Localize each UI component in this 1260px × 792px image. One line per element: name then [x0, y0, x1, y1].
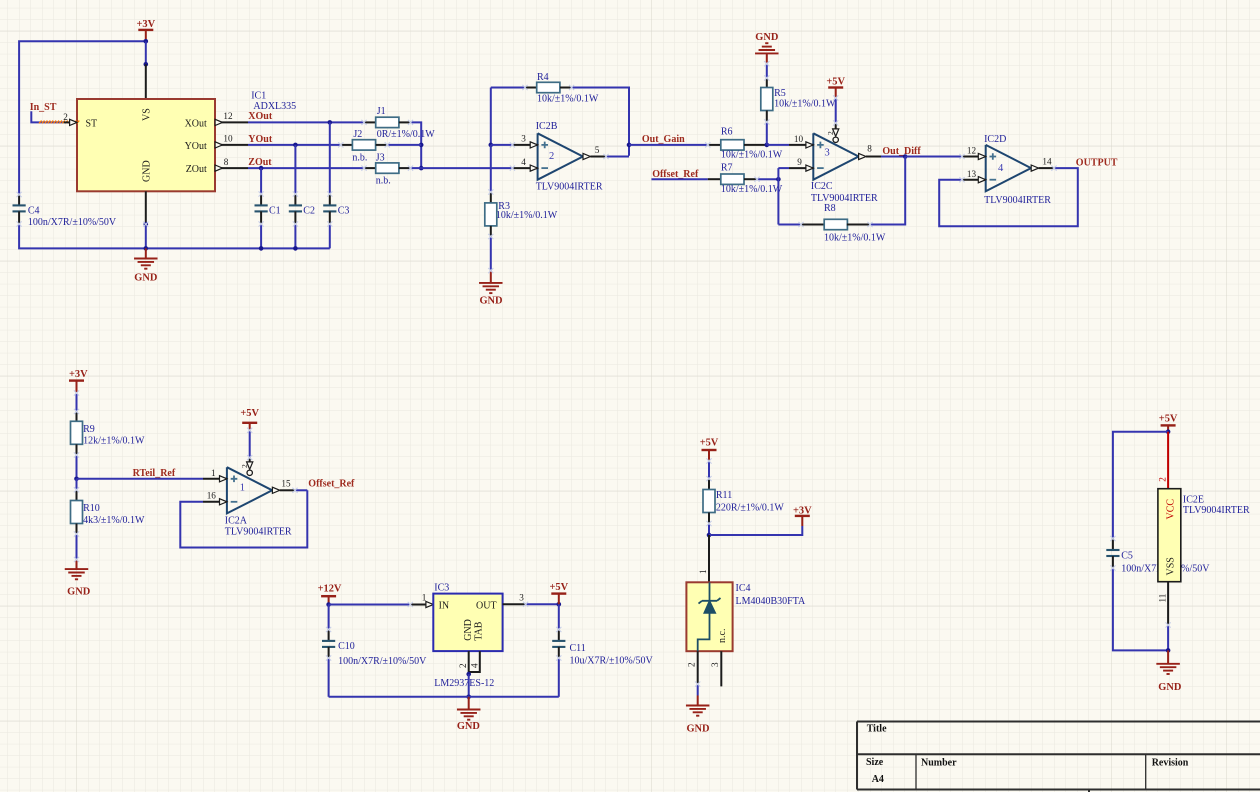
- pin 10: [789, 144, 813, 146]
- pin 12: [962, 156, 986, 158]
- svg-text:n.b.: n.b.: [352, 152, 367, 163]
- svg-text:10k/±1%/0.1W: 10k/±1%/0.1W: [721, 150, 783, 161]
- wire R3 drop: [490, 145, 492, 192]
- capacitor C11: [558, 604, 560, 629]
- resistor R10: [76, 490, 78, 501]
- svg-text:IC2D: IC2D: [984, 134, 1006, 145]
- svg-text:C1: C1: [269, 206, 281, 217]
- pin 2 GND: [468, 651, 470, 674]
- svg-text:In_ST: In_ST: [30, 102, 57, 113]
- wire: [411, 167, 422, 169]
- junction: [144, 62, 149, 67]
- svg-text:2: 2: [826, 131, 835, 135]
- junction: [328, 120, 333, 125]
- junction: [557, 602, 562, 607]
- wire branch +3V: [709, 526, 802, 535]
- junction: [293, 143, 298, 148]
- svg-text:R6: R6: [721, 127, 733, 138]
- svg-text:10k/±1%/0.1W: 10k/±1%/0.1W: [537, 94, 599, 105]
- svg-text:GND: GND: [686, 724, 709, 735]
- ground: [145, 248, 147, 258]
- svg-text:R10: R10: [83, 503, 100, 514]
- svg-text:IC1: IC1: [251, 91, 266, 102]
- IC IC4 body: [686, 582, 732, 651]
- svg-text:IC2E: IC2E: [1183, 495, 1204, 506]
- svg-text:Number: Number: [921, 758, 957, 769]
- ground: [697, 696, 699, 706]
- wire: [526, 603, 559, 605]
- title block frame: [857, 722, 1260, 790]
- svg-text:C10: C10: [338, 641, 355, 652]
- ground: [1167, 650, 1169, 663]
- zener diode symbol: [709, 582, 711, 601]
- wire ZOut to pin4: [421, 167, 512, 169]
- svg-text:11: 11: [1158, 593, 1168, 602]
- svg-text:0R/±1%/0.1W: 0R/±1%/0.1W: [377, 129, 436, 140]
- svg-text:VCC: VCC: [1166, 499, 1177, 520]
- svg-text:16: 16: [207, 491, 217, 501]
- ground: [76, 560, 78, 570]
- svg-text:8: 8: [224, 157, 229, 167]
- svg-text:R4: R4: [537, 72, 549, 83]
- svg-text:2: 2: [458, 663, 468, 668]
- svg-text:1: 1: [240, 482, 245, 493]
- svg-text:3: 3: [519, 592, 524, 602]
- pin 12 XOut: [215, 121, 248, 123]
- pin 9: [789, 167, 813, 169]
- svg-text:Revision: Revision: [1152, 758, 1189, 769]
- svg-text:5: 5: [595, 145, 600, 155]
- wire: [411, 122, 422, 168]
- svg-text:C2: C2: [303, 206, 315, 217]
- wire: [387, 144, 421, 146]
- svg-text:YOut: YOut: [185, 141, 207, 152]
- resistor J2: [341, 144, 353, 146]
- svg-text:GND: GND: [67, 587, 90, 598]
- svg-text:TLV9004IRTER: TLV9004IRTER: [536, 182, 603, 193]
- svg-text:TLV9004IRTER: TLV9004IRTER: [225, 526, 292, 537]
- svg-text:2: 2: [63, 112, 68, 122]
- wire YOut row: [248, 144, 341, 146]
- wire: [491, 144, 513, 146]
- svg-text:ZOut: ZOut: [186, 164, 207, 175]
- capacitor C10: [328, 605, 330, 630]
- svg-text:3: 3: [710, 662, 720, 667]
- svg-text:LM2937ES-12: LM2937ES-12: [434, 678, 494, 689]
- wire: [329, 604, 411, 606]
- svg-text:2: 2: [687, 662, 697, 667]
- op-amp IC2C: [813, 133, 858, 179]
- svg-text:Out_Diff: Out_Diff: [882, 146, 921, 157]
- capacitor C3: [329, 122, 331, 194]
- wire C5 loop: [1113, 432, 1168, 539]
- svg-text:3: 3: [825, 148, 830, 159]
- wire: [31, 111, 63, 122]
- pin 4 TAB: [469, 651, 480, 672]
- svg-text:Offset_Ref: Offset_Ref: [308, 479, 355, 490]
- pin VS: [145, 64, 147, 99]
- svg-text:13: 13: [967, 169, 977, 179]
- wire: [778, 167, 789, 169]
- junction: [259, 166, 264, 171]
- pin GND bottom: [145, 191, 147, 224]
- svg-text:1: 1: [698, 569, 708, 574]
- resistor R11: [708, 479, 710, 490]
- svg-text:10: 10: [223, 134, 233, 144]
- pin 3: [512, 144, 537, 146]
- svg-text:2: 2: [240, 464, 249, 468]
- junction: [293, 246, 298, 251]
- svg-text:TLV9004IRTER: TLV9004IRTER: [1183, 505, 1250, 516]
- svg-text:220R/±1%/0.1W: 220R/±1%/0.1W: [716, 503, 785, 514]
- svg-text:J3: J3: [376, 152, 385, 163]
- IC U1 ADXL335 body: [77, 99, 215, 191]
- resistor R9: [76, 412, 78, 422]
- svg-text:100n/X7R/±10%/50V: 100n/X7R/±10%/50V: [28, 217, 117, 228]
- op-amp IC2A: [227, 467, 272, 513]
- svg-text:1: 1: [211, 468, 216, 478]
- junction: [627, 143, 632, 148]
- pin 2 VCC red: [1167, 432, 1169, 489]
- pin 1 IN: [410, 604, 433, 606]
- svg-text:2: 2: [1158, 477, 1168, 482]
- pin 4: [512, 167, 537, 169]
- svg-text:C5: C5: [1121, 551, 1133, 562]
- junction: [903, 154, 908, 159]
- resistor R7: [708, 178, 721, 180]
- IC IC3 body: [433, 594, 502, 652]
- wire: [708, 461, 710, 479]
- wire: [468, 674, 470, 697]
- junction: [776, 177, 781, 182]
- junction: [326, 602, 331, 607]
- svg-text:4: 4: [470, 663, 480, 668]
- pin 2 IC4: [697, 651, 699, 684]
- svg-text:IN: IN: [439, 601, 450, 612]
- junction: [144, 39, 149, 44]
- wire: [145, 41, 147, 64]
- junction: [1166, 429, 1171, 434]
- pin 2 ST: [64, 121, 77, 123]
- wire: [1113, 568, 1168, 650]
- junction: [74, 477, 79, 482]
- wire: [19, 224, 330, 248]
- resistor R3: [490, 192, 492, 203]
- resistor R8: [801, 224, 825, 226]
- svg-text:+5V: +5V: [1159, 413, 1178, 424]
- svg-text:GND: GND: [479, 296, 502, 307]
- ground: [490, 271, 492, 283]
- svg-text:OUTPUT: OUTPUT: [1076, 157, 1118, 168]
- svg-text:VSS: VSS: [1166, 557, 1177, 575]
- wire: [76, 393, 78, 412]
- wire: [697, 684, 699, 695]
- pin 8 output: [859, 153, 866, 159]
- svg-text:+5V: +5V: [240, 408, 259, 419]
- wire feedback loop: [180, 490, 307, 547]
- wire: [1167, 625, 1169, 650]
- pin 14 output: [1031, 165, 1038, 171]
- svg-text:10k/±1%/0.1W: 10k/±1%/0.1W: [721, 184, 783, 195]
- junction: [707, 533, 712, 538]
- svg-text:IC4: IC4: [736, 583, 751, 594]
- junction: [489, 143, 494, 148]
- svg-text:14: 14: [1042, 157, 1052, 167]
- wire: [19, 41, 146, 194]
- capacitor C5: [1112, 539, 1114, 551]
- wire: [881, 156, 905, 158]
- wire: [778, 224, 801, 226]
- wire: [77, 478, 204, 480]
- svg-text:+5V: +5V: [826, 76, 845, 87]
- junction: [419, 143, 424, 148]
- svg-text:10: 10: [794, 134, 804, 144]
- svg-text:+5V: +5V: [700, 438, 719, 449]
- svg-text:R8: R8: [824, 203, 836, 214]
- svg-text:GND: GND: [134, 273, 157, 284]
- svg-text:GND: GND: [142, 160, 153, 182]
- svg-text:VS: VS: [142, 108, 153, 121]
- wire: [870, 157, 905, 225]
- svg-text:XOut: XOut: [185, 118, 207, 129]
- junction: [765, 143, 770, 148]
- wire: [76, 534, 78, 560]
- svg-text:TLV9004IRTER: TLV9004IRTER: [811, 193, 878, 204]
- svg-text:15: 15: [281, 479, 291, 489]
- svg-text:A4: A4: [872, 774, 884, 785]
- svg-text:12k/±1%/0.1W: 12k/±1%/0.1W: [83, 436, 145, 447]
- svg-text:10k/±1%/0.1W: 10k/±1%/0.1W: [824, 233, 886, 244]
- svg-text:Size: Size: [866, 757, 884, 768]
- svg-text:IC2C: IC2C: [811, 181, 833, 192]
- pin 1: [203, 478, 227, 480]
- capacitor C4: [18, 195, 20, 206]
- ground: [468, 697, 470, 710]
- wire output loop: [939, 168, 1078, 226]
- svg-text:9: 9: [797, 157, 802, 167]
- pin 3 IC4 nc: [720, 651, 722, 686]
- svg-text:LM4040B30FTA: LM4040B30FTA: [736, 596, 807, 607]
- svg-text:Out_Gain: Out_Gain: [642, 134, 685, 145]
- wire: [145, 224, 147, 248]
- resistor R4: [491, 87, 525, 89]
- wire ZOut row: [248, 167, 364, 169]
- svg-text:+12V: +12V: [318, 584, 342, 595]
- wire: [76, 479, 78, 490]
- vertex markers: [259, 191, 264, 196]
- svg-text:TLV9004IRTER: TLV9004IRTER: [984, 195, 1051, 206]
- svg-text:+3V: +3V: [136, 19, 155, 30]
- wire: [651, 178, 707, 180]
- pin 10 YOut: [215, 144, 248, 146]
- pin 1 IC4: [708, 535, 710, 582]
- svg-text:R5: R5: [774, 88, 786, 99]
- svg-text:1: 1: [422, 593, 427, 603]
- svg-text:RTeil_Ref: RTeil_Ref: [133, 468, 176, 479]
- resistor R5: [766, 78, 768, 88]
- svg-text:4: 4: [998, 163, 1004, 174]
- svg-text:2: 2: [549, 151, 554, 162]
- resistor J3: [364, 167, 376, 169]
- svg-text:YOut: YOut: [248, 134, 273, 145]
- svg-text:C4: C4: [28, 206, 40, 217]
- svg-text:8: 8: [867, 144, 872, 154]
- wire: [766, 64, 768, 78]
- svg-text:10k/±1%/0.1W: 10k/±1%/0.1W: [774, 99, 836, 110]
- svg-text:R9: R9: [83, 424, 95, 435]
- svg-text:J1: J1: [377, 106, 386, 117]
- svg-text:12: 12: [967, 146, 977, 156]
- resistor J1: [364, 121, 376, 123]
- junction: [466, 672, 471, 677]
- svg-text:n.b.: n.b.: [376, 176, 391, 187]
- wire: [295, 489, 307, 491]
- svg-text:Title: Title: [867, 724, 887, 735]
- svg-text:IC2A: IC2A: [225, 515, 248, 526]
- wire: [76, 455, 78, 479]
- op-amp IC2D: [986, 145, 1031, 191]
- wire: [708, 524, 710, 536]
- op-amp IC2B: [538, 133, 583, 179]
- pin 13: [962, 179, 986, 181]
- svg-text:ST: ST: [86, 118, 98, 129]
- wire: [629, 144, 708, 146]
- svg-text:12: 12: [223, 111, 233, 121]
- svg-text:XOut: XOut: [248, 111, 273, 122]
- svg-text:100n/X7R/±10%/50V: 100n/X7R/±10%/50V: [338, 656, 427, 667]
- svg-text:GND: GND: [463, 619, 474, 641]
- svg-text:C11: C11: [570, 643, 586, 654]
- svg-text:+5V: +5V: [549, 582, 568, 593]
- svg-text:GND: GND: [457, 721, 480, 732]
- svg-text:TAB: TAB: [474, 621, 485, 641]
- capacitor C2: [294, 145, 296, 194]
- svg-text:C3: C3: [338, 206, 350, 217]
- junction: [1166, 648, 1171, 653]
- svg-text:4: 4: [521, 157, 526, 167]
- svg-text:GND: GND: [1158, 682, 1181, 693]
- svg-text:3: 3: [521, 134, 526, 144]
- wire: [905, 156, 962, 158]
- svg-text:n.c.: n.c.: [717, 629, 728, 643]
- svg-text:IC2B: IC2B: [536, 121, 558, 132]
- junction: [419, 166, 424, 171]
- svg-text:4k3/±1%/0.1W: 4k3/±1%/0.1W: [83, 515, 145, 526]
- junction: [144, 222, 149, 227]
- svg-text:OUT: OUT: [476, 601, 497, 612]
- wire: [767, 144, 789, 146]
- capacitor C1: [260, 168, 262, 194]
- svg-text:10k/±1%/0.1W: 10k/±1%/0.1W: [496, 210, 558, 221]
- wire XOut row: [248, 121, 364, 123]
- svg-text:+3V: +3V: [69, 369, 88, 380]
- pin 15 output: [272, 487, 279, 493]
- wire: [766, 122, 768, 145]
- no-ERC marker: [39, 121, 79, 124]
- junction: [144, 246, 149, 251]
- pin 5 output: [583, 153, 590, 159]
- svg-text:10u/X7R/±10%/50V: 10u/X7R/±10%/50V: [570, 655, 654, 666]
- wire bottom rail: [329, 696, 559, 698]
- svg-text:R7: R7: [721, 163, 733, 174]
- junction: [466, 695, 471, 700]
- wire: [606, 156, 629, 158]
- resistor R6: [708, 144, 721, 146]
- svg-text:IC3: IC3: [434, 582, 449, 593]
- wire R4 left vertical: [490, 88, 492, 145]
- pin 3 OUT: [503, 603, 526, 605]
- IC IC2E body: [1158, 489, 1181, 582]
- pin 16: [203, 501, 227, 503]
- pin 11 VSS: [1167, 582, 1169, 625]
- svg-text:R11: R11: [716, 490, 732, 501]
- pin 8 ZOut: [215, 167, 248, 169]
- junction: [259, 246, 264, 251]
- svg-text:J2: J2: [353, 129, 362, 140]
- svg-text:GND: GND: [755, 32, 778, 43]
- wire: [757, 178, 778, 180]
